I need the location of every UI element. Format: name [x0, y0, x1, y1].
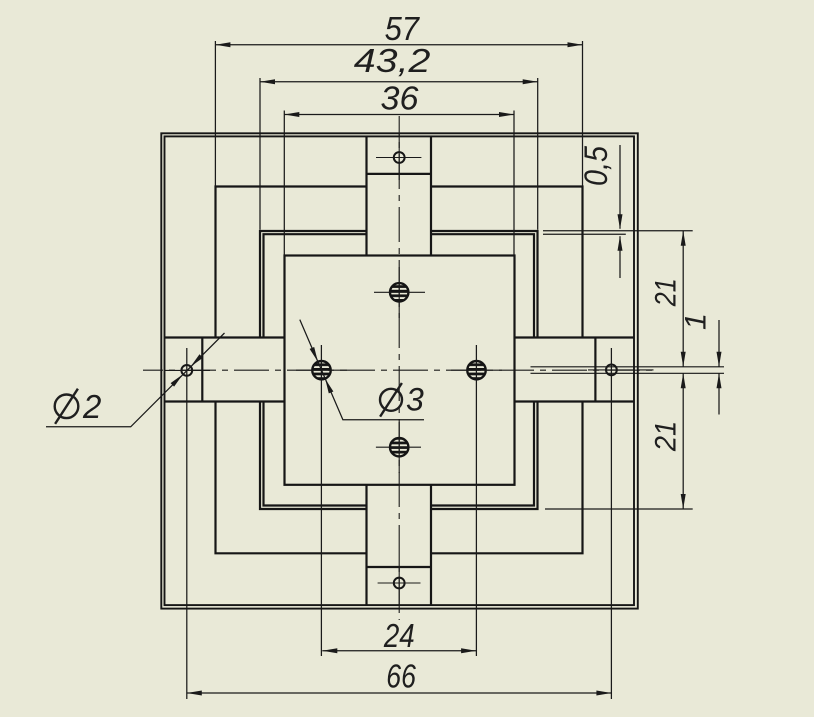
dimension 24	[322, 650, 476, 652]
small hole bottom	[394, 578, 405, 589]
outer square (inner line)	[165, 136, 635, 605]
slit lines on right (1 wide)	[531, 367, 725, 374]
middle square	[216, 187, 583, 554]
hatched hole top (D3)	[390, 283, 408, 301]
outer square (outer line)	[161, 133, 638, 608]
dimension 1	[718, 320, 720, 415]
bottom tab	[367, 485, 432, 605]
svg-text:21: 21	[649, 421, 682, 452]
svg-text:2: 2	[82, 388, 101, 425]
small hole left (D2)	[181, 365, 192, 376]
svg-text:43,2: 43,2	[354, 42, 431, 79]
dimension 43,2	[260, 81, 538, 83]
inner thick square inner line (0.5 offset)	[264, 234, 535, 505]
svg-text:1: 1	[680, 313, 713, 330]
dimension 57	[215, 44, 582, 46]
hole center cross lines	[164, 134, 654, 606]
top tab	[367, 136, 432, 255]
horizontal centerline	[143, 369, 654, 371]
leader D2	[46, 333, 225, 427]
svg-text:3: 3	[406, 381, 424, 417]
hatched hole left (D3)	[312, 361, 330, 379]
svg-text:0,5: 0,5	[578, 146, 614, 186]
svg-text:21: 21	[649, 278, 682, 307]
extension lines	[187, 41, 693, 699]
dimension 0,5	[619, 145, 621, 278]
hatched hole right (D3)	[467, 361, 485, 379]
svg-text:24: 24	[383, 617, 415, 654]
svg-text:36: 36	[381, 80, 420, 117]
dimension 21 bottom	[682, 373, 684, 509]
vertical centerline	[398, 116, 400, 620]
dimension 21 top	[682, 231, 684, 367]
leader D3	[300, 320, 424, 420]
svg-text:66: 66	[386, 657, 416, 694]
inner thick square outer line (43.2)	[260, 231, 538, 509]
hatched hole bottom (D3)	[390, 438, 408, 456]
dimension 36	[284, 114, 514, 116]
small hole right	[606, 365, 617, 376]
innermost square (36)	[285, 256, 515, 485]
small hole top	[394, 152, 405, 163]
dimension 66	[187, 692, 612, 694]
left tab	[165, 338, 285, 402]
right tab	[515, 338, 635, 402]
